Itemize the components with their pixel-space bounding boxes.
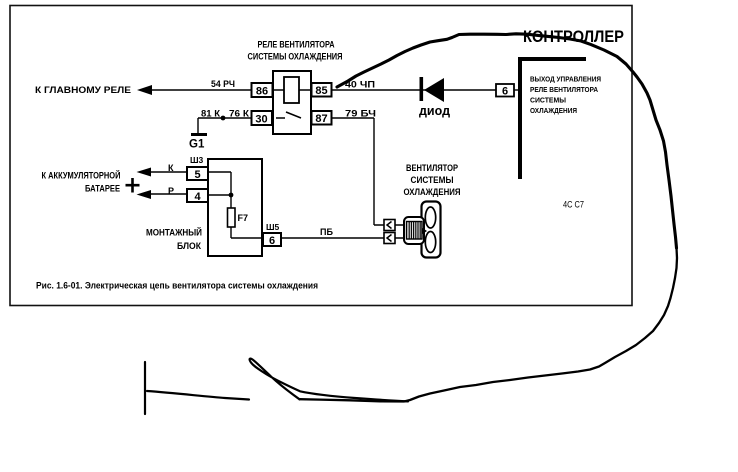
svg-text:СИСТЕМЫ ОХЛАЖДЕНИЯ: СИСТЕМЫ ОХЛАЖДЕНИЯ	[248, 52, 343, 62]
svg-text:79 БЧ: 79 БЧ	[345, 109, 376, 119]
svg-text:Ш5: Ш5	[266, 222, 280, 232]
svg-text:МОНТАЖНЫЙ: МОНТАЖНЫЙ	[146, 227, 202, 238]
svg-text:Рис. 1.6-01. Электрическая цеп: Рис. 1.6-01. Электрическая цепь вентилят…	[36, 281, 318, 291]
svg-text:86: 86	[256, 86, 268, 98]
svg-text:КОНТРОЛЛЕР: КОНТРОЛЛЕР	[523, 28, 624, 46]
svg-text:Ш3: Ш3	[190, 155, 204, 165]
svg-text:РЕЛЕ ВЕНТИЛЯТОРА: РЕЛЕ ВЕНТИЛЯТОРА	[530, 85, 598, 94]
svg-text:6: 6	[269, 235, 275, 247]
svg-text:ОХЛАЖДЕНИЯ: ОХЛАЖДЕНИЯ	[404, 187, 461, 197]
svg-text:БЛОК: БЛОК	[177, 241, 201, 251]
svg-text:РЕЛЕ ВЕНТИЛЯТОРА: РЕЛЕ ВЕНТИЛЯТОРА	[258, 40, 335, 50]
svg-text:4C C7: 4C C7	[563, 200, 584, 210]
svg-text:К АККУМУЛЯТОРНОЙ: К АККУМУЛЯТОРНОЙ	[42, 170, 121, 181]
svg-text:54 РЧ: 54 РЧ	[211, 79, 235, 89]
svg-text:G1: G1	[189, 139, 205, 151]
svg-text:К: К	[168, 163, 174, 173]
svg-text:5: 5	[194, 169, 200, 181]
svg-text:К ГЛАВНОМУ РЕЛЕ: К ГЛАВНОМУ РЕЛЕ	[35, 85, 131, 95]
svg-text:87: 87	[315, 113, 327, 125]
svg-text:ВЫХОД УПРАВЛЕНИЯ: ВЫХОД УПРАВЛЕНИЯ	[530, 75, 601, 84]
svg-text:F7: F7	[238, 213, 249, 223]
svg-text:ВЕНТИЛЯТОР: ВЕНТИЛЯТОР	[406, 163, 458, 173]
svg-text:диод: диод	[419, 104, 450, 118]
svg-text:ПБ: ПБ	[320, 227, 333, 237]
svg-text:40 ЧП: 40 ЧП	[345, 80, 375, 90]
svg-text:6: 6	[502, 86, 508, 98]
svg-text:76 К: 76 К	[229, 109, 250, 119]
svg-text:85: 85	[315, 85, 327, 97]
svg-text:30: 30	[255, 114, 267, 126]
svg-text:СИСТЕМЫ: СИСТЕМЫ	[530, 96, 566, 105]
svg-text:81 К: 81 К	[201, 109, 221, 119]
svg-text:БАТАРЕЕ: БАТАРЕЕ	[85, 184, 120, 194]
svg-text:СИСТЕМЫ: СИСТЕМЫ	[411, 175, 454, 185]
svg-text:4: 4	[194, 191, 201, 203]
svg-text:Р: Р	[168, 186, 174, 196]
svg-text:ОХЛАЖДЕНИЯ: ОХЛАЖДЕНИЯ	[530, 106, 577, 115]
